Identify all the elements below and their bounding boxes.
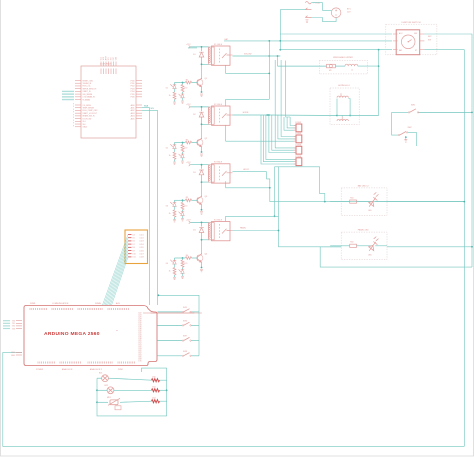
junction rail x274 K4 aux line (274, 215, 276, 217)
J5 pin 3 (128, 240, 132, 242)
flasher dashed box (319, 61, 367, 74)
svg-text:ST: ST (415, 50, 417, 52)
diode D4 flyback (199, 228, 204, 233)
connector J3 pin 2 (294, 149, 296, 151)
relay K2 dashed link (219, 109, 221, 124)
ignition switch right pin (420, 40, 425, 42)
U1 right pin g2-2 (136, 107, 142, 109)
U1 top pin name 2 (103, 69, 105, 75)
U1 left pin g2-1 (75, 104, 81, 106)
U1 right pin g1-2 (136, 82, 142, 84)
junction staircase on box A wire (324, 201, 326, 203)
wire switch rail right (198, 312, 200, 356)
wire conn J1 pin2 (287, 117, 296, 128)
wire diode D2 anode (201, 107, 203, 111)
wire battery cluster left (280, 9, 305, 11)
U1 right pin g1-1 (136, 80, 142, 82)
junction diode D4 top (201, 222, 203, 224)
junction horn right (349, 115, 351, 117)
wire horn bus (337, 115, 379, 117)
Arduino top header B (52, 308, 72, 310)
relay K2 coil box (209, 107, 215, 124)
Arduino left pin 2 (16, 325, 22, 327)
svg-text:CONN2: CONN2 (295, 133, 301, 135)
net label MOSI3 (62, 99, 74, 101)
relay K4 contact box (212, 222, 231, 241)
wire chain B drop ch3 (182, 200, 184, 202)
svg-text:BRAKE_SW_IN: BRAKE_SW_IN (83, 115, 96, 118)
diode D2 flyback (199, 112, 204, 117)
net label arduino left 2 (3, 325, 10, 327)
relay K3 switch lever (222, 171, 230, 176)
svg-text:WIPER_SENS_HI: WIPER_SENS_HI (83, 88, 97, 90)
wire chain B drop ch1 (182, 83, 184, 85)
wire diode D3 cathode (201, 175, 203, 182)
relay K4 switch lever (222, 229, 230, 234)
wire relay K2 coil bottom to Q2 collector (202, 124, 209, 139)
wire relay K4 coil top (190, 221, 208, 223)
wire LED to resistor chain A ch4 (174, 264, 176, 267)
svg-text:THERM_IN: THERM_IN (83, 83, 92, 85)
Arduino left pin 1 (16, 322, 22, 324)
LED box A LED (369, 192, 379, 206)
junction base net ch2 (182, 142, 184, 144)
wire SW7 to rail (191, 340, 199, 342)
relay K1 output pin (230, 54, 233, 56)
svg-text:R2: R2 (186, 139, 188, 141)
resistor R3b base (185, 199, 191, 202)
U1 top pin 3 (105, 62, 107, 67)
LED box B resistor (350, 244, 357, 247)
mic sub box (115, 406, 121, 410)
wire conn J2 pin2 (278, 115, 296, 139)
wire Q2 emitter (201, 147, 203, 152)
connector J1 box (296, 124, 302, 132)
wire chain B to gnd ch2 (182, 158, 184, 161)
ignition switch left pin (393, 40, 398, 42)
U1 top pin 5 (110, 62, 112, 67)
push switch SW6 (184, 322, 190, 325)
battery BT1 circle (331, 8, 341, 18)
wire resistor2 to rail (160, 389, 167, 391)
wire diode D1 anode (201, 47, 203, 51)
power flag +12V relay K3 (189, 163, 191, 166)
wire buzzer gnd loop (97, 378, 167, 416)
svg-text:LCD6: LCD6 (140, 250, 144, 252)
resistor R1c chain B (181, 85, 184, 92)
ground pin chain A ch2 (173, 162, 176, 164)
svg-text:CONN4: CONN4 (295, 156, 301, 158)
wire chain A drop ch3 (174, 200, 176, 202)
resistor R21 buzzer (152, 389, 160, 392)
ground pin chain A ch4 (173, 278, 176, 280)
svg-text:R10: R10 (350, 242, 353, 244)
resistor R1a chain A (173, 92, 176, 99)
wire into LED box B (330, 245, 350, 247)
wire base net LED side ch4 (175, 257, 186, 259)
wire base net LED side ch2 (175, 142, 186, 144)
wire LED to resistor chain A ch2 (174, 149, 176, 152)
Arduino bottom header C (88, 362, 112, 364)
wire base resistor to Q1 (192, 82, 198, 84)
svg-text:SW2: SW2 (408, 127, 412, 129)
U1 left pin g2-2 (75, 107, 81, 109)
U1 right pin g1-4 (136, 88, 142, 90)
svg-text:COMMUNICATION: COMMUNICATION (52, 302, 69, 305)
junction tap J3p3 (268, 114, 270, 116)
junction SW1 rail x472 (471, 112, 473, 114)
svg-text:D2: D2 (166, 148, 168, 150)
svg-text:R20: R20 (153, 377, 156, 379)
horn top pin (340, 93, 342, 96)
svg-text:9: 9 (73, 112, 74, 114)
U1 right pin g2-3 (136, 109, 142, 111)
wire rail x278 down (278, 167, 280, 217)
wire chain A to gnd ch2 (174, 160, 176, 162)
resistor R3a chain A (173, 210, 176, 217)
J5 ribbon wire 1 (103, 235, 129, 306)
connector J4 pin 1 (294, 158, 296, 160)
svg-text:R22: R22 (153, 398, 156, 400)
svg-text:+12V: +12V (186, 44, 191, 46)
U1 left pin g1-8 (75, 99, 81, 101)
wire rail x378 down (378, 50, 380, 116)
svg-text:OIL_SENS: OIL_SENS (83, 105, 92, 107)
wire LED box A LED to box edge (375, 201, 387, 203)
J5 pin 2 (128, 237, 132, 239)
junction rail x378 flasher (378, 65, 380, 67)
svg-text:SW6: SW6 (183, 320, 187, 322)
svg-text:BZ1: BZ1 (99, 373, 102, 375)
J5 pin 5 (128, 246, 132, 248)
svg-text:ANALOG IN 2: ANALOG IN 2 (90, 368, 102, 371)
ground pin chain B ch4 (181, 277, 184, 279)
svg-text:K1 G5LE: K1 G5LE (214, 44, 223, 46)
svg-text:K4 G5LE: K4 G5LE (214, 219, 223, 221)
U1 left pin g2-8 (75, 123, 81, 125)
LED D1b chain B (179, 94, 185, 98)
ground flag Q2 emitter (200, 154, 203, 156)
Arduino top header D (108, 308, 128, 310)
junction diode D1 top (201, 46, 203, 48)
svg-text:R4: R4 (186, 255, 188, 257)
svg-text:9: 9 (73, 109, 74, 111)
relay K4 coil box (209, 223, 215, 240)
wire chain A drop ch4 (174, 258, 176, 260)
wire fuse to battery (312, 3, 332, 11)
horn coil bottom (337, 119, 348, 121)
wire conn J3 pin3 (269, 115, 296, 153)
wire horn coil left drop (336, 99, 338, 116)
wire K4 out to LED box B (279, 216, 342, 247)
svg-text:D11: D11 (133, 257, 136, 259)
svg-text:PWML: PWML (30, 303, 36, 305)
svg-text:470: 470 (184, 88, 187, 90)
battery BT1 plus (335, 9, 337, 11)
relay K2 contact box (212, 106, 231, 125)
connector J3 box (296, 146, 302, 154)
resistor R2b base (185, 141, 191, 144)
U1 top pin 6 (113, 62, 115, 67)
wire mic to resistor (120, 401, 152, 402)
U1 top pin 1 (100, 62, 102, 67)
svg-text:IGN_SW: IGN_SW (244, 54, 252, 56)
J5 pin 8 (128, 256, 132, 258)
wire relay K1 output (233, 55, 281, 57)
wire switch rail top (158, 295, 199, 312)
wire buzzer2 left stub (97, 389, 107, 391)
svg-text:LED12: LED12 (243, 169, 249, 171)
wire K3 out to LED box A feed (267, 172, 465, 202)
svg-text:D5: D5 (133, 238, 135, 240)
wire ACC line to ignition pin2 (224, 40, 392, 42)
relay K2 switch lever (222, 113, 230, 118)
U1 top pin name 7 (115, 69, 117, 75)
svg-text:PWMH: PWMH (95, 303, 102, 305)
J5 ribbon wire 4 (106, 244, 128, 305)
junction K1 out rail (268, 55, 270, 57)
wire horn bottom pin stub (341, 116, 343, 117)
resistor R4b base (185, 257, 191, 260)
resistor R1b base (185, 81, 191, 84)
svg-text:D9: D9 (133, 250, 135, 252)
junction diode D2 top (201, 106, 203, 108)
J5 pin 4 (128, 243, 132, 245)
svg-text:HORN: HORN (243, 112, 249, 114)
Arduino bottom header B (60, 362, 80, 364)
ignition switch right pin (420, 33, 425, 35)
svg-text:GND: GND (11, 355, 16, 357)
wire chain B to gnd ch4 (182, 273, 184, 276)
wire K2 out to horn box (267, 114, 337, 117)
wire chain A to gnd ch1 (174, 100, 176, 102)
relay K1 dashed link (219, 49, 221, 64)
svg-text:XT1: XT1 (108, 57, 110, 60)
svg-text:9: 9 (73, 114, 74, 116)
J5 ribbon wire 2 (104, 238, 128, 305)
wire conn J3 pin2 (272, 115, 296, 150)
svg-text:LCD4: LCD4 (140, 244, 144, 246)
svg-text:1k: 1k (169, 95, 171, 97)
transistor Q4 (197, 254, 203, 262)
wire rail x285 distribution (286, 61, 290, 118)
svg-text:START_IN: START_IN (83, 90, 92, 93)
horn coil top (337, 96, 348, 98)
svg-text:470: 470 (184, 263, 187, 265)
connector J1 pin 1 (294, 125, 296, 127)
push switch SW7 (184, 337, 190, 340)
wire SW2 out (408, 132, 417, 146)
svg-text:CONN1: CONN1 (295, 122, 301, 124)
relay K4 dashed link (219, 224, 221, 239)
LED D3b chain B (179, 212, 185, 216)
junction battery rail bottom (279, 49, 281, 51)
transistor Q2 (197, 138, 203, 146)
U1 left pin g1-7 (75, 96, 81, 98)
U1 right pin g1-3 (136, 85, 142, 87)
wire Q1 emitter (201, 87, 203, 92)
battery BT1 minus (335, 14, 337, 16)
wire conn J4 pin2 (263, 115, 296, 162)
wire relay K2 output (233, 114, 268, 116)
wire Q3 emitter (201, 205, 203, 210)
LED D2a indicator (170, 144, 176, 148)
net label MOSI1 (62, 93, 74, 95)
wire base net LED side ch3 (175, 199, 186, 201)
junction horn left (336, 115, 338, 117)
svg-text:SCL: SCL (151, 108, 155, 110)
wire battery drop rail (279, 10, 281, 50)
power flag +12V relay K4 (189, 221, 191, 224)
ground flag Q3 emitter (200, 212, 203, 214)
wire relay K3 coil top (190, 164, 208, 166)
svg-text:R3: R3 (186, 197, 188, 199)
wire Q4 collector stub (201, 254, 203, 255)
transistor Q1 (197, 78, 203, 86)
wire conn J4 pin3 (261, 115, 296, 164)
wire into LED box A (330, 201, 350, 203)
svg-text:D6: D6 (133, 241, 135, 243)
fuse F1 (305, 2, 311, 4)
ground pin SW2 (404, 137, 407, 142)
junction switch rail tap (158, 294, 160, 296)
resistor R3c chain B (181, 202, 184, 209)
horn dashed box (330, 88, 359, 125)
junction buzzer rail 3 (96, 401, 98, 403)
LED box B LED (369, 237, 379, 251)
wire relay K2 coil top (190, 106, 208, 108)
svg-text:D7: D7 (133, 244, 135, 246)
svg-text:START_LOCKOUT: START_LOCKOUT (83, 112, 97, 115)
svg-text:+12V: +12V (186, 162, 191, 164)
wire SDA from U1 to Arduino (142, 108, 150, 305)
Arduino Mega 2560 board outline (24, 306, 157, 366)
wire switch SW1 feed (392, 111, 409, 113)
wire horn coil right drop (348, 99, 350, 116)
J5 ribbon wire 8 (112, 257, 128, 305)
switch SW2 (400, 132, 407, 136)
ground pin chain A ch3 (173, 220, 176, 222)
wire diode D1 cathode (201, 57, 203, 64)
wire box B left loop (320, 247, 472, 267)
svg-text:POWER: POWER (36, 369, 44, 371)
junction resistor rail (166, 389, 168, 391)
svg-text:K3 G5LE: K3 G5LE (214, 162, 223, 164)
wire base net LED side ch1 (175, 82, 186, 84)
wire diode D2 cathode (201, 117, 203, 124)
switch SW1 (410, 109, 419, 113)
ignition switch body (396, 30, 420, 55)
buzzer BZ2 (107, 387, 114, 394)
J5 ribbon wire 3 (105, 241, 128, 305)
Arduino right header col2 (151, 312, 202, 314)
J5 pin 1 (128, 234, 132, 236)
U1 top pin name 5 (110, 69, 112, 75)
svg-text:IGNITION SWITCH: IGNITION SWITCH (402, 22, 421, 24)
wire resistor rail right (160, 380, 167, 401)
wire relay K3 output (233, 171, 267, 173)
wire SW8 to rail (191, 355, 199, 357)
wire resistor to LED LED box B (357, 245, 372, 247)
connector J3 pin 1 (294, 147, 296, 149)
ignition switch left pin (393, 49, 398, 51)
resistor R20 buzzer (152, 379, 160, 382)
svg-text:SW8: SW8 (183, 351, 187, 353)
svg-text:DOOR_SW: DOOR_SW (83, 118, 92, 120)
U1 left pin g2-7 (75, 120, 81, 122)
svg-text:9: 9 (73, 120, 74, 122)
LED D4b chain B (179, 269, 185, 273)
wire SCL from U1 to Arduino (142, 110, 158, 305)
connector J1 pin 2 (294, 127, 296, 129)
junction diode D1 bottom (201, 63, 203, 65)
net label arduino left 1 (3, 322, 10, 324)
Arduino left pin g2-1 (16, 354, 22, 356)
resistor R4c chain B (181, 260, 184, 267)
wire chain A to gnd ch4 (174, 275, 176, 277)
svg-text:ARDUINO MEGA 2560: ARDUINO MEGA 2560 (44, 331, 100, 337)
svg-text:9: 9 (73, 125, 74, 127)
svg-text:D10: D10 (133, 254, 136, 256)
U1 left pin g2-4 (75, 112, 81, 114)
svg-text:SW7: SW7 (183, 336, 187, 338)
wire chain A drop ch1 (174, 83, 176, 85)
wire Q3 collector stub (201, 196, 203, 197)
wire into flasher box (278, 65, 327, 67)
junction rail x269 top (268, 40, 270, 42)
svg-text:WINDSHIELD WIPER: WINDSHIELD WIPER (333, 57, 353, 59)
relay K3 output pin (230, 172, 233, 174)
wire conn J1 pin3 (284, 117, 296, 130)
relay K3 dashed link (219, 166, 221, 181)
svg-text:TX3: TX3 (12, 328, 15, 330)
U1 top pin name 4 (108, 69, 110, 75)
wire gnd loop left-bottom (3, 352, 465, 446)
svg-text:9: 9 (73, 123, 74, 125)
J5 pin 7 (128, 253, 132, 255)
U1 left pin g1-2 (75, 82, 81, 84)
diode D3 flyback (199, 170, 204, 175)
svg-text:PANEL: PANEL (240, 227, 246, 230)
IC U1 body (81, 66, 136, 138)
U1 left pin g2-3 (75, 109, 81, 111)
wire relay K2 aux pin (226, 99, 270, 106)
junction diode D2 bottom (201, 123, 203, 125)
resistor R4a chain A (173, 268, 176, 275)
Arduino top header A (30, 308, 47, 310)
wire chain B mid ch4 (182, 268, 184, 270)
relay K2 coil loops (208, 108, 210, 123)
svg-text:BAT LED 12: BAT LED 12 (358, 185, 370, 188)
svg-text:D4: D4 (133, 234, 135, 236)
relay K1 coil box (209, 47, 215, 64)
wire resistor rail top (142, 368, 167, 380)
U1 left pin g2-5 (75, 115, 81, 117)
Arduino left pin 0 (16, 320, 22, 322)
junction battery rail BAT line (279, 40, 281, 42)
connector J1 pin 3 (294, 129, 296, 131)
svg-text:PWM: PWM (118, 369, 123, 371)
U1 right pin g2-6 (136, 118, 142, 120)
connector J4 box (296, 158, 302, 166)
LED box B dashed box (341, 232, 387, 260)
U1 left pin g1-1 (75, 80, 81, 82)
wire staircase to box A wire (275, 167, 325, 202)
svg-text:LCD3: LCD3 (140, 241, 144, 243)
wire K4 out straight (233, 230, 279, 232)
svg-text:470: 470 (184, 148, 187, 150)
U1 left pin g2-6 (75, 118, 81, 120)
